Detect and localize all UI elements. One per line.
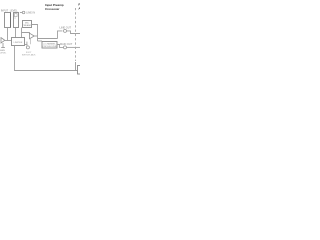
svg-text:LEVEL: LEVEL [0,53,7,55]
wire J2 to right edge [67,31,81,34]
main out jack J3 [64,46,67,49]
stub from A2 bottom [30,39,32,44]
svg-text:CROSSOVER: CROSSOVER [43,46,57,48]
line-in jack wire [20,12,22,14]
svg-text:MAIN OUT: MAIN OUT [60,43,73,46]
wire to upper line out [58,31,63,39]
wire into crossover box [38,40,43,42]
wire limiter bottom to power amp [15,46,78,71]
wire crossover to lower out jack [57,45,63,48]
ground bar under A1 [1,47,5,49]
wire limiter to jack [25,44,28,46]
wire J3 to right edge [67,46,80,48]
wire A2 output [34,35,37,37]
jack circle J1 [26,46,29,49]
power amp box (cut off at edge) [78,66,84,75]
background [0,0,80,80]
channel strip box 1 [5,13,11,28]
svg-text:SWITCH JACK: SWITCH JACK [22,54,36,57]
wire vertical bus x37.5 [32,25,38,42]
line out jack J2 [64,29,67,32]
svg-text:Am: Am [78,6,80,10]
svg-text:PREAMP: PREAMP [22,24,32,27]
op-amp A2 (mic amp triangle) [30,33,35,39]
wire strip1 bottom down [7,28,9,41]
channel strip box 2 [14,13,19,28]
wire A1 gain stub down [2,43,4,47]
wire strip2 bottom down [15,28,17,38]
wire branch to amp A2 input [22,33,30,35]
wire line-out feed y38.5 [38,38,58,40]
svg-text:LINE IN: LINE IN [26,12,35,15]
crossover box [42,42,57,49]
line-in jack circle [22,11,25,14]
svg-text:LINE OUT: LINE OUT [60,26,72,29]
divider solid lower segment [75,62,77,71]
wire A1 output to limiter [5,40,12,42]
jack stub vertical [26,42,28,46]
wire mic box bottom down [21,28,23,38]
svg-text:Crossover: Crossover [45,7,60,11]
limiter box [12,38,25,46]
svg-text:LIMITER: LIMITER [14,42,23,44]
op-amp A1 (left monitor amp) [1,38,5,43]
fader mark inside strip 2 [14,14,17,17]
dashed section divider [75,8,77,61]
mic preamp box U1 [23,21,32,28]
